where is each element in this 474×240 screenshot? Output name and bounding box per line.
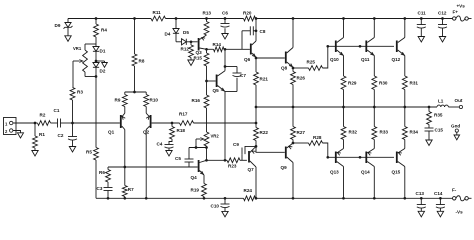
node D2 bottom [95,75,98,78]
wire input line to Q1 base [73,122,120,124]
svg-text:R15: R15 [194,56,203,61]
node lower base rail R28 [326,156,329,159]
transistor Q11 [361,19,374,63]
ground at C6 [222,34,228,40]
input connector J1 [4,118,17,135]
wire R15 to R16 with Q5 base tap [206,66,208,95]
ground at R1 [32,151,38,157]
svg-text:R20: R20 [243,11,252,16]
ground tee at D1/D2 [96,61,107,67]
ground at C11 [418,37,424,43]
resistor R4 [94,19,108,47]
svg-text:R35: R35 [434,113,443,118]
svg-text:R27: R27 [297,130,306,135]
svg-text:D9: D9 [55,23,61,28]
svg-text:R12: R12 [181,47,190,52]
node rail R13 [205,17,208,20]
ground at R12 [188,60,194,66]
svg-text:Q7: Q7 [248,167,255,172]
node R7 bus [123,197,126,200]
transistor Q7 [248,146,257,172]
wire rail to R8 [134,19,136,55]
svg-text:Q15: Q15 [392,170,401,175]
wire VR1 wiper to R3 [72,61,74,88]
node D1-D2 [95,60,98,63]
svg-text:R23: R23 [228,164,237,169]
resistor R18 [170,123,186,139]
wire R14 node down to Q5 [224,49,226,66]
svg-text:C7: C7 [240,73,246,78]
node top rail / R4 [95,17,98,20]
wire after F- [468,197,471,199]
transistor Q9 [281,143,294,170]
node bus C14 [439,197,442,200]
svg-text:D5: D5 [183,30,189,35]
resistor R25 [293,60,323,71]
transistor Q1 [108,107,125,135]
resistor R9 [115,92,128,107]
svg-text:Q1: Q1 [108,130,115,135]
node Q4 collector [205,159,208,162]
capacitor C14 [434,191,445,211]
capacitor C3 [97,182,113,198]
svg-text:R3: R3 [77,90,83,95]
svg-text:C8: C8 [260,29,266,34]
svg-text:R8: R8 [139,59,145,64]
svg-text:Q4: Q4 [191,175,198,180]
node bus Q14 collector [373,197,376,200]
svg-text:Out: Out [455,98,463,103]
svg-text:Q10: Q10 [330,57,339,62]
node C8 right [255,29,258,32]
svg-text:Q13: Q13 [330,170,339,175]
wire D5 to Q3 base [191,41,198,43]
wire input to R2 [13,122,35,124]
node rail C12 [441,17,444,20]
capacitor C8 [242,26,266,49]
node R1/R2 [34,122,37,125]
node output rail R27 [292,106,295,109]
node feedback output tap [255,122,258,125]
node Q6 emitter [255,57,258,60]
transistor Q8 [281,48,293,71]
transistor Q12 [392,19,405,63]
svg-text:C12: C12 [438,11,447,16]
resistor R19 [191,175,207,198]
wire VR1 bottom tie [85,76,96,78]
capacitor C2 [58,123,78,147]
svg-text:R1: R1 [39,132,45,137]
node base rail R25 [326,45,329,48]
wire Q7 collector to bus [255,167,257,198]
svg-text:R32: R32 [349,130,358,135]
node C1/R3/C2 [71,122,74,125]
transistor Q10 [330,19,344,63]
wire VR2 wiper loop [195,139,197,148]
svg-text:R25: R25 [307,60,316,65]
node bus Q7 [255,197,258,200]
svg-text:Q6: Q6 [244,57,251,62]
resistor R26 [291,68,306,85]
node Q3 collector / R14 / R15 [205,48,208,51]
node Q2 collector bus [145,197,148,200]
svg-text:R28: R28 [313,135,322,140]
ground at C2 [69,147,75,153]
node rail C11 [420,17,423,20]
svg-text:R10: R10 [150,98,159,103]
svg-text:VR2: VR2 [211,134,220,139]
node output rail R29 [342,106,345,109]
node rail Q12 collector [403,17,406,20]
svg-text:Q9: Q9 [281,165,288,170]
ground at C4 [166,151,172,157]
capacitor C11 [417,11,426,37]
wire Q2 collector down [145,130,147,199]
wire R3 to input node [72,100,74,123]
svg-text:R17: R17 [179,112,188,117]
resistor R1 [33,123,46,151]
transistor Q4 [191,160,207,180]
resistor R13 [203,11,212,36]
resistor R23 [225,158,247,169]
svg-text:C1: C1 [54,108,60,113]
svg-text:R16: R16 [192,98,201,103]
resistor R14 [207,42,225,52]
node D5 cathode [190,40,193,43]
resistor R34 [402,107,418,149]
node rail D4 [175,17,178,20]
wire +Vs top rail [68,18,472,20]
svg-text:C11: C11 [418,11,427,16]
wire VR2 to VAS out node [206,148,208,161]
node Q5 base tap [205,80,208,83]
transistor Q3 [196,35,207,55]
svg-text:C4: C4 [157,142,163,147]
wire VAS output node line [207,159,226,161]
node R14 right [224,48,227,51]
wire diff pair common bar [125,91,146,93]
node Q7 emitter [255,145,258,148]
resistor R15 [194,49,209,66]
wire VAS node line y147 [189,147,207,149]
svg-text:C2: C2 [58,133,64,138]
svg-text:D1: D1 [100,49,106,54]
wire Q6 emitter to Q8 base [256,57,285,59]
resistor R33 [372,107,388,149]
node bus C13 [420,197,423,200]
fuse F+ [453,4,469,22]
node output rail left [255,106,258,109]
node bus Q9 [292,197,295,200]
resistor R31 [402,56,418,108]
trimpot VR1 [73,44,87,77]
node lower base rail mid [359,156,362,159]
svg-text:R18: R18 [177,128,186,133]
node rail C6 [224,17,227,20]
resistor R12 [181,42,194,60]
wire output rail [256,106,437,108]
svg-text:C14: C14 [434,191,443,196]
svg-text:R33: R33 [380,130,389,135]
resistor R7 [122,167,134,198]
resistor R30 [372,56,388,108]
wire -Vs bottom rail [256,197,453,199]
resistor R3 [70,88,83,101]
ground at input pin2 [18,133,24,138]
wire R8 to diff pair common [134,66,136,92]
svg-text:R2: R2 [40,113,46,118]
fuse F- [452,188,468,215]
svg-text:R5: R5 [86,150,92,155]
svg-text:R19: R19 [191,188,200,193]
terminal Gnd [451,124,460,140]
node bus Q13 collector [342,197,345,200]
wire Q1 collector to Q4 base line [108,166,198,168]
wire Q8 collector to rail [292,19,294,48]
ground at C13 [418,211,424,217]
resistor R8 [132,54,145,66]
wire Q7 emitter to Q9 base [256,146,285,152]
wire R21 to output rail [255,85,257,107]
capacitor C15 zobel [425,125,444,141]
resistor R16 [192,95,209,108]
svg-text:Q3: Q3 [196,50,203,55]
svg-text:R24: R24 [244,188,253,193]
resistor R5 [86,148,98,161]
wire bias chain down to R5 [95,77,97,148]
node C3 bus [107,197,110,200]
node rail R8 [133,17,136,20]
node VAS column R23 [224,159,227,162]
wire Q2 base feedback line [152,122,256,124]
wire Q9 collector to bus [292,163,294,199]
wire L1 to output terminal [448,106,459,108]
capacitor C7 [225,67,246,92]
svg-text:R26: R26 [297,76,306,81]
capacitor C5 [175,148,194,168]
resistor R24 [244,188,256,201]
ground at C10 [222,211,228,217]
resistor R6 [99,167,110,182]
node rail Q10 collector [342,17,345,20]
resistor R10 [144,92,159,107]
transistor Q5 [213,67,226,94]
wire R16 to VR2 [206,108,208,132]
svg-text:C13: C13 [416,191,425,196]
svg-text:R30: R30 [379,81,388,86]
diode D4 [165,19,180,42]
capacitor C9 [233,142,256,160]
resistor R22 [254,128,269,147]
diode D5 [176,30,191,45]
svg-text:R7: R7 [128,187,134,192]
wire negative front-end bus [108,197,244,199]
svg-text:R14: R14 [213,42,222,47]
transistor Q14 [361,149,374,199]
inductor L1 [437,99,448,108]
svg-text:R34: R34 [410,130,419,135]
transistor Q13 [330,149,344,199]
node Q9 emitter [292,142,295,145]
wire VR1 top tie [85,43,96,45]
ground at C14 [437,211,443,217]
svg-text:VR1: VR1 [73,46,82,51]
svg-text:R29: R29 [348,81,357,86]
svg-text:R22: R22 [260,130,269,135]
resistor R21 [254,58,269,85]
svg-text:Q5: Q5 [213,88,220,93]
resistor R27 [291,107,306,143]
svg-text:F-: F- [452,188,457,193]
node VR2 bottom [205,146,208,149]
wire bottom output base rail [328,156,394,158]
node rail Q6 collector [255,17,258,20]
resistor R2 [35,113,51,126]
svg-text:+Vs: +Vs [457,4,466,9]
node diff common [133,91,136,94]
svg-text:F+: F+ [453,10,459,15]
svg-text:C10: C10 [211,204,220,209]
capacitor C12 [438,11,447,37]
node R18 tap [171,122,174,125]
wire Q6 collector to rail [255,19,257,31]
transistor Q6 [244,31,256,62]
resistor R28 [293,135,323,145]
svg-text:R9: R9 [115,98,121,103]
transistor Q2 [143,107,151,135]
svg-text:R13: R13 [203,11,212,16]
wire top output base rail [328,45,394,47]
ground at zobel [426,140,432,146]
resistor R11 [151,10,166,21]
svg-text:R21: R21 [260,77,269,82]
wire R26 to output rail [292,85,294,108]
node base rail mid [359,45,362,48]
node bus Q15 collector [403,197,406,200]
node output rail R31 [403,106,406,109]
svg-text:C15: C15 [435,127,444,132]
resistor R35 zobel [427,107,443,125]
svg-text:L1: L1 [438,99,444,104]
svg-text:Q8: Q8 [281,66,288,71]
wire R14 to Q6 base [225,48,250,50]
wire R28 to lower base rail [323,143,328,157]
capacitor C10 [211,198,230,211]
node C10 tap [224,197,227,200]
wire pin2 to ground [13,131,21,133]
resistor R29 [341,56,357,108]
svg-text:Q11: Q11 [361,57,370,62]
capacitor C4 [157,139,174,151]
transistor Q15 [392,149,405,199]
ground at C12 [439,37,445,43]
diode D1 [93,47,106,62]
svg-text:D2: D2 [100,69,106,74]
wire Q5 emitter down VAS column [224,92,226,161]
ground at D9 [65,36,71,42]
svg-text:C3: C3 [97,186,103,191]
svg-text:R6: R6 [99,170,105,175]
svg-text:R11: R11 [153,10,162,15]
node VR2 wiper join [195,146,198,149]
output terminal Out [455,98,463,109]
svg-text:Q14: Q14 [361,170,370,175]
node Q8 emitter [292,67,295,70]
capacitor C6 [221,11,230,34]
svg-text:D4: D4 [165,32,171,37]
resistor R17 [179,112,194,126]
node R19 bus [203,197,206,200]
wire output column mid [255,107,257,128]
svg-text:C5: C5 [175,156,181,161]
resistor R32 [341,107,357,149]
wire Q1 collector down [124,130,126,168]
svg-text:C6: C6 [222,11,228,16]
svg-text:Gnd: Gnd [451,124,460,129]
node output rail zobel [428,106,431,109]
svg-text:Q12: Q12 [392,57,401,62]
wire R25 to base rail [323,46,328,68]
svg-text:R4: R4 [101,28,107,33]
trimpot VR2 [196,132,219,148]
node output rail R30 [373,106,376,109]
svg-text:-Vs: -Vs [456,210,464,215]
wire Q5 base [207,80,216,82]
node rail Q8 collector [292,17,295,20]
node Q5 collector / C7 [224,65,227,68]
svg-text:C9: C9 [233,142,239,147]
svg-text:R31: R31 [410,81,419,86]
capacitor C13 [416,191,426,211]
node rail Q11 collector [373,17,376,20]
diode D2 [93,63,106,77]
node Q1 collector / R6 [123,166,126,169]
zener diode D9 [55,19,73,36]
capacitor C1 [51,108,73,128]
resistor R20 [243,11,256,21]
wire R5 to negative bus [96,160,108,198]
